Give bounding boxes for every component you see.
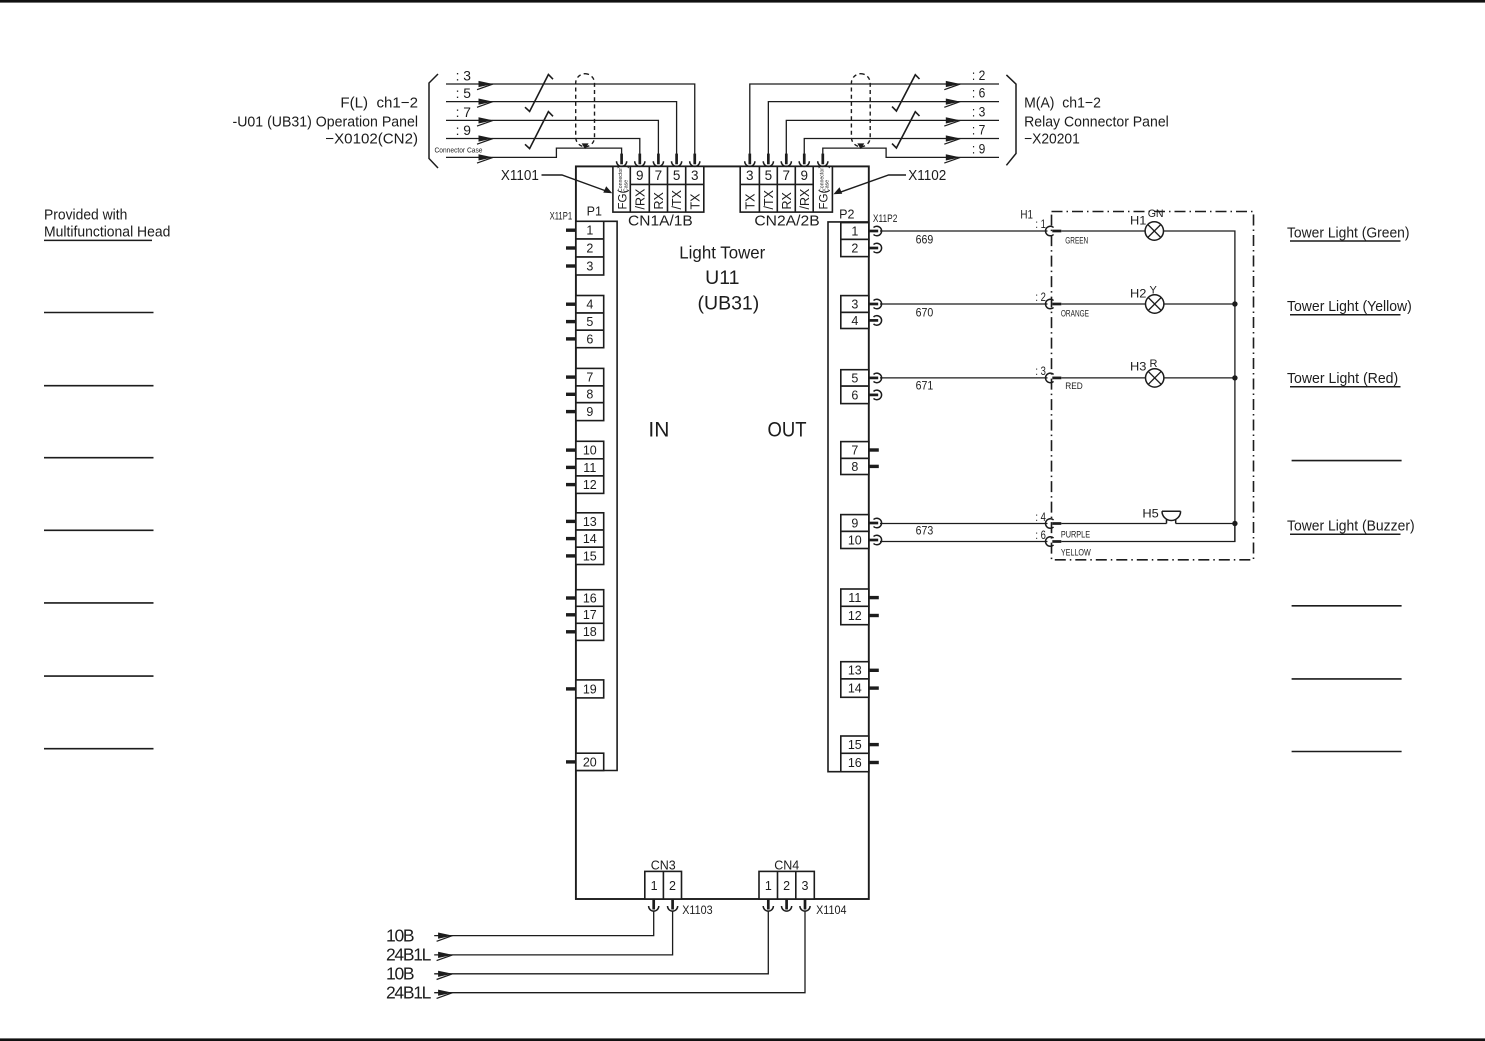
svg-text:671: 671	[916, 381, 934, 393]
svg-text:3: 3	[746, 168, 754, 183]
wire : 7 left (to CN1A)	[446, 104, 658, 154]
P1 pin 3	[566, 257, 604, 275]
note M(A) ch1-2 Relay Connector Panel	[1024, 94, 1169, 147]
P2 pin 11	[841, 589, 879, 606]
label X1101 with leader	[501, 168, 612, 193]
P1 pin 13	[566, 513, 604, 530]
node :3 entry	[1046, 373, 1062, 383]
P1 pin 14	[566, 530, 604, 547]
CN2A plug at x=768.35	[763, 154, 773, 167]
svg-text:(UB31): (UB31)	[698, 293, 760, 315]
svg-text:5: 5	[673, 168, 681, 183]
P1 pin 17	[566, 606, 604, 623]
svg-text:: 6: : 6	[1035, 528, 1046, 542]
svg-text:9: 9	[586, 405, 593, 419]
node :2 entry	[1046, 299, 1062, 309]
svg-text:: 2: : 2	[972, 67, 986, 83]
svg-text:: 3: : 3	[972, 104, 986, 120]
svg-text:1: 1	[651, 879, 658, 893]
P2 pin 13	[841, 662, 879, 679]
svg-text:8: 8	[851, 460, 858, 474]
junction dot H5/bus	[1232, 521, 1237, 526]
svg-text:Tower Light (Buzzer): Tower Light (Buzzer)	[1287, 518, 1415, 535]
svg-text:: 7: : 7	[972, 122, 986, 138]
wire 671 (P2 pin5 to :3 RED)	[880, 364, 1048, 393]
P1 pin 15	[566, 547, 604, 564]
svg-text:−X0102(CN2): −X0102(CN2)	[325, 131, 418, 148]
svg-text:10B: 10B	[386, 964, 415, 984]
P1 pin 20	[566, 753, 604, 770]
CN2A plug at x=822.8	[818, 154, 828, 167]
svg-text:Multifunctional Head: Multifunctional Head	[44, 224, 170, 241]
wire : 3 right (from CN2A)	[786, 104, 999, 155]
wire : 7 right (from CN2A)	[804, 122, 999, 154]
CN1A plug at x=639.8	[635, 154, 645, 167]
svg-text:Case: Case	[623, 180, 629, 192]
svg-text:6: 6	[586, 332, 593, 346]
svg-text:15: 15	[848, 738, 862, 752]
svg-text:8: 8	[586, 388, 593, 402]
right cable bracket	[1006, 75, 1016, 165]
P2 pin 12	[841, 606, 879, 624]
svg-text:7: 7	[586, 371, 593, 385]
connector CN3	[645, 857, 682, 899]
label Tower Light (Yellow)	[1287, 298, 1412, 315]
svg-text:1: 1	[586, 224, 593, 238]
P1 pin 1	[566, 221, 604, 239]
twisted pair mark left 2	[525, 112, 553, 149]
svg-text:X11P2: X11P2	[873, 213, 898, 225]
P1 pin 8	[566, 386, 604, 403]
wire GREEN (to lamp H1)	[1061, 231, 1145, 247]
svg-text:10: 10	[583, 444, 597, 458]
wire : 3 left (to CN1A)	[446, 68, 695, 154]
P2 pin 1	[841, 223, 882, 240]
svg-text:H1: H1	[1130, 213, 1147, 227]
wire 670 (P2 pin3 to :2 ORANGE)	[880, 290, 1048, 320]
wire lamp H3 to bus	[1164, 377, 1235, 379]
P2 pin 15	[841, 736, 879, 753]
wire lamp H1 to bus	[1164, 231, 1235, 304]
bottom plug at x=768.3	[763, 900, 773, 912]
svg-text:1: 1	[851, 224, 858, 238]
wire 24B1L (to x=672.6)	[386, 911, 673, 964]
svg-text:: 3: : 3	[1035, 364, 1046, 378]
connector CN1A/1B block	[613, 166, 704, 212]
svg-text:12: 12	[848, 609, 862, 623]
P1 pin 7	[566, 368, 604, 386]
svg-text:CN2A/2B: CN2A/2B	[754, 213, 819, 230]
wire 10B (to x=653.7)	[386, 911, 654, 945]
wire : 2 right (from CN2A)	[750, 67, 999, 154]
left blank signal lines	[44, 313, 154, 749]
svg-text:Y: Y	[1150, 285, 1158, 297]
svg-text:13: 13	[583, 515, 597, 529]
svg-text:R: R	[1150, 358, 1158, 370]
wire : 6 right (from CN2A)	[768, 85, 999, 154]
svg-text:7: 7	[851, 443, 858, 457]
CN2A FG(Connector Case) pin	[819, 165, 831, 210]
svg-text:5: 5	[765, 168, 773, 183]
CN2A plug at x=749.8	[745, 154, 755, 167]
CN1A pin 5 (/TX)	[670, 168, 684, 209]
svg-text:2: 2	[586, 241, 593, 255]
wire lamp H2 to bus	[1164, 303, 1235, 305]
svg-text:P2: P2	[839, 207, 854, 221]
CN1A pin 7 (RX)	[652, 168, 666, 209]
P1 pin 18	[566, 623, 604, 640]
wire 673 (P2 pin9 to :4 PURPLE)	[880, 510, 1048, 538]
svg-text:X1104: X1104	[816, 903, 847, 917]
svg-text:TX: TX	[743, 193, 757, 210]
label Tower Light (Buzzer)	[1287, 518, 1415, 535]
svg-text:14: 14	[583, 532, 597, 546]
CN2A plug at x=804.25	[799, 154, 809, 167]
svg-text:X11P1: X11P1	[550, 211, 573, 223]
bottom plug at x=805	[800, 900, 810, 912]
svg-text:CN4: CN4	[774, 857, 799, 872]
svg-text:TX: TX	[688, 193, 702, 210]
P1 pin 16	[566, 590, 604, 607]
svg-text:: 4: : 4	[1035, 510, 1046, 524]
svg-text:669: 669	[916, 235, 934, 247]
CN1A pin 9 (/RX)	[633, 168, 647, 209]
wire ORANGE (to lamp H2)	[1061, 304, 1146, 320]
wire YELLOW (return to bus)	[1061, 524, 1235, 559]
wire 10B (to x=768.3)	[386, 911, 768, 983]
svg-text:2: 2	[669, 879, 676, 893]
unit box Light Tower U11 (UB31)	[576, 166, 869, 899]
svg-text:3: 3	[586, 259, 593, 273]
svg-text:1: 1	[765, 879, 772, 893]
node :6 entry	[1046, 537, 1062, 547]
svg-text:20: 20	[583, 755, 597, 769]
bottom plug at x=672.6	[668, 900, 678, 912]
twisted pair mark right 1	[892, 75, 920, 111]
wire Connector Case left (to CN1A FG)	[435, 146, 622, 164]
svg-text:F(L) ch1−2: F(L) ch1−2	[340, 94, 418, 111]
svg-text:H5: H5	[1142, 506, 1159, 520]
svg-text:−X20201: −X20201	[1024, 131, 1080, 148]
wire PURPLE (to buzzer H5)	[1061, 524, 1167, 541]
svg-text:: 3: : 3	[456, 68, 472, 84]
P2 pin 9	[841, 515, 882, 532]
lamp H2 (Y)	[1130, 285, 1164, 314]
svg-text:: 5: : 5	[456, 85, 472, 101]
CN1A plug at x=694.75	[690, 154, 700, 167]
svg-text:7: 7	[783, 168, 791, 183]
label X1102 with leader	[833, 168, 946, 195]
svg-text:RED: RED	[1065, 381, 1083, 392]
svg-text:: 6: : 6	[972, 85, 986, 101]
wire 669 (P2 pin1 to :1 GREEN)	[880, 217, 1048, 247]
svg-text:H2: H2	[1130, 286, 1147, 300]
svg-text:ORANGE: ORANGE	[1061, 309, 1089, 320]
svg-text:Relay Connector Panel: Relay Connector Panel	[1024, 113, 1169, 130]
svg-text:PURPLE: PURPLE	[1061, 529, 1090, 540]
wire buzzer H5 to bus	[1176, 523, 1235, 525]
P1 pin 6	[566, 330, 604, 348]
node :4 entry	[1046, 519, 1062, 529]
note F(L) ch1-2 Operation Panel	[233, 94, 419, 147]
P1 pin 9	[566, 403, 604, 421]
P2 pin 3	[841, 296, 882, 313]
svg-text:2: 2	[851, 241, 858, 255]
svg-text:: 2: : 2	[1035, 290, 1046, 304]
wire RED (to lamp H3)	[1061, 378, 1145, 392]
svg-text:12: 12	[583, 478, 597, 492]
CN1A plug at x=676.6	[672, 154, 682, 167]
P2 pin 16	[841, 753, 879, 771]
P1 pin 11	[566, 459, 604, 476]
CN2A pin 5 (/TX)	[762, 168, 776, 209]
svg-text:16: 16	[583, 591, 597, 605]
svg-text:14: 14	[848, 682, 862, 696]
wire 24B1L (to x=805)	[386, 911, 805, 1002]
svg-text:/RX: /RX	[633, 188, 647, 210]
svg-text:Case: Case	[825, 180, 831, 192]
svg-text:5: 5	[586, 315, 593, 329]
svg-text:/TX: /TX	[670, 189, 684, 209]
P2 pin 2	[841, 239, 882, 256]
svg-text:18: 18	[583, 625, 597, 639]
svg-text:X1102: X1102	[908, 168, 946, 184]
P1 pin 12	[566, 476, 604, 494]
twisted pair mark left 1	[525, 75, 553, 112]
svg-text:/TX: /TX	[762, 189, 776, 209]
svg-text:: 9: : 9	[456, 122, 472, 138]
svg-text:Connector Case: Connector Case	[435, 146, 483, 155]
svg-text:: 1: : 1	[1035, 217, 1046, 231]
twisted pair mark right 2	[892, 112, 920, 148]
connector CN4	[759, 857, 814, 899]
svg-text:M(A) ch1−2: M(A) ch1−2	[1024, 94, 1101, 111]
svg-text:3: 3	[802, 879, 809, 893]
P2 pin 7	[841, 442, 879, 459]
P1 pin 2	[566, 239, 604, 257]
bottom plug at x=653.7	[649, 900, 659, 912]
CN2A plug at x=786.3	[781, 154, 791, 167]
junction dot H3/bus	[1232, 375, 1237, 380]
P1 pin 5	[566, 313, 604, 330]
svg-text:673: 673	[916, 525, 934, 537]
svg-text:YELLOW: YELLOW	[1061, 548, 1091, 559]
wire : 9 left (to CN1A)	[446, 122, 640, 154]
svg-text:19: 19	[583, 682, 597, 696]
bus segment H3-H5	[1234, 378, 1236, 542]
svg-text:13: 13	[848, 664, 862, 678]
svg-text:9: 9	[851, 516, 858, 530]
wire P2 pin10 to :6 YELLOW	[880, 528, 1048, 542]
svg-text:11: 11	[583, 461, 596, 475]
CN1A FG(Connector Case) pin	[617, 165, 629, 210]
connector P2 (X11P2) outline	[828, 222, 869, 772]
svg-text:GN: GN	[1148, 208, 1164, 220]
svg-text:U11: U11	[705, 267, 739, 289]
CN2A pin 3 (TX)	[743, 168, 757, 209]
P1 pin 10	[566, 441, 604, 459]
connector CN2A/2B block	[740, 166, 832, 212]
lamp H3 (R)	[1130, 358, 1164, 387]
svg-text:24B1L: 24B1L	[386, 945, 432, 965]
svg-text:10: 10	[848, 533, 862, 547]
svg-text:2: 2	[783, 879, 790, 893]
svg-text:RX: RX	[652, 191, 666, 209]
svg-text:9: 9	[800, 168, 808, 183]
left cable bracket	[429, 74, 438, 168]
svg-text:15: 15	[583, 549, 597, 563]
wire :9 right (from CN2A FG, Connector Case)	[823, 141, 999, 164]
svg-text:11: 11	[848, 591, 861, 605]
svg-text:17: 17	[583, 608, 597, 622]
svg-text:24B1L: 24B1L	[386, 983, 432, 1003]
cable shield right (dashed capsule)	[851, 74, 870, 149]
svg-text:670: 670	[916, 308, 934, 320]
svg-text:10B: 10B	[386, 925, 415, 945]
bottom border bar	[0, 1038, 1485, 1041]
svg-text:CN3: CN3	[651, 857, 676, 872]
svg-text:4: 4	[851, 314, 858, 328]
svg-text:H1: H1	[1020, 208, 1033, 222]
lamp H1 (GN)	[1130, 208, 1164, 240]
buzzer H5	[1142, 506, 1180, 523]
svg-text:Provided with: Provided with	[44, 207, 127, 224]
note: Provided with Multifunctional Head	[44, 207, 170, 241]
svg-text:16: 16	[848, 756, 862, 770]
top border bar	[0, 0, 1485, 3]
CN1A pin 3 (TX)	[688, 168, 702, 209]
svg-text:IN: IN	[648, 419, 669, 442]
tower light assembly enclosure (dash-dot)	[1052, 212, 1254, 560]
cable shield left (dashed capsule)	[576, 74, 595, 149]
CN1A plug at x=658.4	[653, 154, 663, 167]
svg-text:Tower Light (Yellow): Tower Light (Yellow)	[1287, 298, 1412, 315]
svg-text:RX: RX	[780, 191, 794, 209]
svg-text:Tower Light (Red): Tower Light (Red)	[1287, 370, 1398, 387]
P2 pin 5	[841, 370, 882, 386]
svg-text:OUT: OUT	[768, 419, 807, 442]
svg-text:/RX: /RX	[798, 188, 812, 210]
svg-text:X1101: X1101	[501, 168, 539, 184]
svg-text:H3: H3	[1130, 360, 1147, 374]
P2 pin 14	[841, 679, 879, 697]
svg-text:: 9: : 9	[972, 141, 986, 157]
svg-text:6: 6	[851, 388, 858, 402]
svg-text:4: 4	[586, 298, 593, 312]
svg-text:7: 7	[655, 168, 663, 183]
svg-text:: 7: : 7	[456, 104, 472, 120]
svg-text:3: 3	[691, 168, 699, 183]
bottom plug at x=786.6	[782, 900, 792, 912]
P1 pin 19	[566, 680, 604, 698]
P1 pin 4	[566, 296, 604, 314]
connector P1 (X11P1) outline	[576, 221, 617, 770]
CN2A pin 7 (RX)	[780, 168, 794, 209]
svg-text:GREEN: GREEN	[1065, 236, 1088, 247]
svg-text:3: 3	[851, 297, 858, 311]
svg-text:Tower Light (Green): Tower Light (Green)	[1287, 224, 1410, 241]
node :1 entry	[1046, 226, 1062, 236]
svg-text:CN1A/1B: CN1A/1B	[628, 213, 693, 230]
P2 pin 10	[841, 531, 882, 548]
svg-text:P1: P1	[587, 204, 602, 218]
P2 pin 8	[841, 458, 879, 474]
label Tower Light (Green)	[1287, 224, 1410, 241]
CN1A plug at x=621.6	[617, 154, 627, 167]
right blank signal lines	[1292, 461, 1402, 752]
CN2A pin 9 (/RX)	[798, 168, 812, 209]
junction dot H2/bus	[1232, 301, 1237, 306]
wire : 5 left (to CN1A)	[446, 85, 677, 154]
svg-text:-U01 (UB31) Operation Panel: -U01 (UB31) Operation Panel	[233, 113, 419, 130]
svg-text:Light Tower: Light Tower	[679, 243, 765, 263]
svg-text:9: 9	[636, 168, 644, 183]
svg-text:X1103: X1103	[682, 903, 713, 917]
svg-text:5: 5	[851, 371, 858, 385]
P2 pin 6	[841, 386, 882, 404]
P2 pin 4	[841, 312, 882, 328]
bus segment H2-H3	[1234, 304, 1236, 378]
label Tower Light (Red)	[1287, 370, 1401, 387]
